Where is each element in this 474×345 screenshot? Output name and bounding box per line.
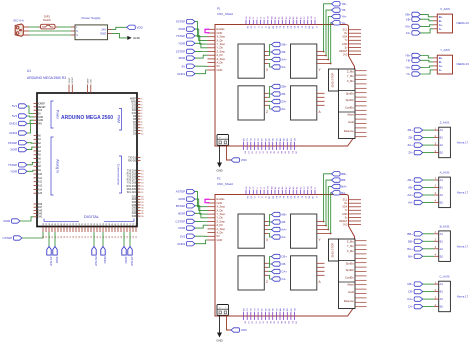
svg-text:D43: D43	[38, 214, 43, 216]
svg-text:XDIR: XDIR	[10, 148, 17, 152]
svg-text:GND: GND	[38, 120, 43, 122]
net flag CB- to C_AXIS	[408, 289, 434, 293]
svg-text:ZA-: ZA-	[408, 151, 413, 155]
svg-text:CA-: CA-	[408, 305, 413, 309]
svg-text:A1: A1	[440, 128, 444, 132]
P2 stepper driver Z	[238, 256, 268, 290]
net flag YDIR and wire to U1	[10, 169, 33, 173]
svg-text:ZB-: ZB-	[408, 136, 413, 140]
svg-text:CDIR: CDIR	[178, 226, 185, 230]
net flag XB- (P1 X driver)	[264, 50, 286, 56]
svg-text:Resume: Resume	[344, 129, 355, 133]
svg-text:B1: B1	[440, 136, 444, 140]
svg-text:TX3 D14: TX3 D14	[127, 170, 137, 172]
U1 DIGITAL label and bracket	[44, 214, 134, 221]
svg-text:CA+: CA+	[281, 270, 287, 274]
P2 A driver unconnected pins	[316, 263, 324, 275]
net flag ZB- (P1 Z driver)	[264, 92, 286, 98]
svg-text:TX0 D1: TX0 D1	[128, 157, 137, 159]
net flag AA- (P2 X driver)	[264, 234, 286, 240]
svg-text:A_Step: A_Step	[217, 227, 226, 231]
net flag YA- and wire from P1 Y driver	[316, 21, 346, 65]
P2 bottom pin header	[243, 307, 296, 324]
net flag ZA- to Z_AXIS	[408, 150, 434, 154]
svg-text:BA+: BA+	[407, 247, 413, 251]
svg-text:IOREF: IOREF	[69, 77, 71, 84]
net flag CDIR to P2	[178, 225, 207, 230]
net flag AA+ (P2 X driver)	[264, 227, 287, 231]
svg-text:5V: 5V	[38, 114, 41, 116]
connector J1 IEC-A-A power inlet	[14, 19, 30, 37]
svg-text:A1: A1	[440, 178, 444, 182]
svg-text:YA+: YA+	[405, 66, 411, 70]
svg-text:AA+: AA+	[281, 228, 287, 232]
svg-text:YSTEP: YSTEP	[8, 163, 18, 167]
P1 A driver unconnected pins	[316, 93, 324, 105]
svg-text:BSTEP: BSTEP	[176, 204, 186, 208]
svg-text:ZDIR: ZDIR	[55, 257, 59, 264]
svg-text:B1: B1	[440, 239, 444, 243]
net flag CDIR and wire to U1	[3, 217, 33, 223]
net flag YA+ and wire from P1 Y driver	[316, 14, 347, 60]
svg-text:D45: D45	[38, 210, 43, 212]
svg-text:Z_AXIS: Z_AXIS	[440, 121, 450, 125]
svg-text:BA-: BA-	[408, 254, 413, 258]
svg-text:XSTEP: XSTEP	[8, 141, 18, 145]
svg-text:SDA D20: SDA D20	[127, 188, 137, 191]
svg-text:BB+: BB+	[341, 172, 347, 176]
svg-text:YA-: YA-	[406, 72, 411, 76]
svg-text:DIGITAL: DIGITAL	[84, 214, 100, 219]
net flag ZSTEP to P1	[176, 49, 208, 53]
svg-text:D30: D30	[132, 208, 137, 210]
svg-text:B2: B2	[440, 305, 444, 309]
svg-text:SpnEn: SpnEn	[346, 91, 355, 95]
svg-text:Power: Power	[56, 110, 60, 120]
P1 END STOP header label	[329, 69, 339, 91]
svg-text:Z_Dir: Z_Dir	[217, 223, 223, 227]
svg-text:X_Step: X_Step	[217, 205, 226, 209]
net flag BDIR below U1	[101, 232, 107, 263]
svg-text:CSTEP: CSTEP	[176, 220, 186, 224]
svg-text:CB+: CB+	[407, 282, 413, 286]
svg-text:XSTEP: XSTEP	[176, 20, 186, 24]
svg-text:A_Step: A_Step	[217, 57, 226, 61]
svg-text:Communication: Communication	[117, 164, 121, 186]
svg-text:5V1: 5V1	[12, 104, 18, 108]
wire E: IEC to power supply	[29, 34, 71, 36]
svg-text:YDIR: YDIR	[178, 41, 185, 45]
net flag XSTEP and wire to U1	[8, 141, 34, 145]
svg-text:Nema 17: Nema 17	[457, 191, 469, 195]
svg-text:X_Mo: X_Mo	[347, 79, 355, 83]
svg-text:D49: D49	[38, 204, 43, 206]
svg-text:C_AXIS: C_AXIS	[440, 275, 450, 279]
svg-text:GND: GND	[91, 79, 93, 84]
svg-text:GND: GND	[131, 102, 136, 104]
P1 left pins	[208, 27, 226, 72]
svg-text:Hold: Hold	[348, 290, 354, 294]
svg-text:SCL: SCL	[343, 199, 348, 202]
svg-text:G: G	[76, 35, 78, 37]
net flag 5V2 and wire to U1	[12, 114, 33, 118]
svg-text:GND2: GND2	[9, 131, 17, 135]
ground symbol GND (power supply)	[127, 36, 140, 40]
P1 stepper driver X	[238, 44, 269, 78]
net flag BA- to B_AXIS	[408, 254, 434, 258]
P2 end-stop / control pin block	[339, 239, 367, 309]
svg-text:AB+: AB+	[281, 213, 287, 217]
svg-text:Y_Dir: Y_Dir	[217, 46, 224, 50]
net flag GND1 and wire to U1	[9, 120, 33, 126]
svg-text:XA+: XA+	[281, 58, 287, 62]
net flag 5V to P1	[182, 64, 208, 68]
svg-text:P1: P1	[217, 7, 221, 11]
svg-text:Nema 17: Nema 17	[457, 295, 469, 299]
svg-text:BDIR: BDIR	[178, 211, 185, 215]
svg-text:RESET: RESET	[72, 76, 74, 83]
svg-text:D41: D41	[38, 217, 43, 219]
svg-text:ZB-: ZB-	[281, 92, 286, 96]
U1 PWM bracket	[117, 109, 122, 131]
svg-text:X_Step: X_Step	[217, 35, 226, 39]
svg-text:Nema 17: Nema 17	[457, 141, 469, 145]
svg-text:GND: GND	[217, 68, 223, 72]
svg-text:D32: D32	[132, 210, 137, 212]
svg-text:GND1: GND1	[9, 122, 17, 126]
svg-text:AB-: AB-	[408, 186, 413, 190]
net flag ZA+ (P1 Z driver)	[264, 99, 287, 103]
net flag ASTEP to P2	[176, 189, 208, 206]
U1 Analog In bracket	[51, 137, 60, 195]
svg-text:ZSTEP: ZSTEP	[176, 50, 185, 54]
svg-text:AA+: AA+	[407, 193, 413, 197]
svg-text:Z_Dir: Z_Dir	[217, 53, 223, 57]
U1 bottom pins DIGITAL	[43, 222, 138, 238]
U1 right pins lower group	[132, 196, 145, 218]
net flag ZB- to Z_AXIS	[408, 135, 434, 139]
svg-text:A-: A-	[439, 27, 442, 31]
svg-text:YB+: YB+	[405, 54, 411, 58]
U1 Communication bracket	[117, 156, 122, 193]
svg-text:GND: GND	[216, 169, 222, 173]
svg-text:D28: D28	[132, 205, 137, 207]
svg-text:NEMA 23: NEMA 23	[457, 62, 470, 66]
net flag GND1 to P1	[177, 70, 207, 76]
net flag YA- to Y_AXIS	[406, 70, 433, 76]
svg-text:IEC-A-A: IEC-A-A	[14, 19, 24, 23]
net flag GND2 and wire to U1	[9, 124, 33, 136]
svg-text:CA+: CA+	[407, 297, 413, 301]
net flag YA+ to Y_AXIS	[405, 65, 433, 69]
net flag XDIR and wire to U1	[10, 147, 33, 152]
net flag VDD (P2)	[231, 328, 247, 332]
svg-text:BB-: BB-	[408, 239, 413, 243]
svg-text:GND: GND	[133, 36, 141, 40]
net flag BB- to B_AXIS	[408, 239, 434, 243]
svg-text:RX1 D19: RX1 D19	[127, 186, 137, 188]
net flag YB- to Y_AXIS	[406, 58, 433, 62]
svg-text:ZB+: ZB+	[408, 128, 414, 132]
svg-text:A2: A2	[440, 193, 444, 197]
U1 right pins Communication group	[127, 157, 145, 194]
P1 stepper driver Y	[291, 44, 322, 78]
svg-text:GND: GND	[216, 339, 222, 343]
svg-text:XA-: XA-	[406, 31, 411, 35]
svg-text:VDD: VDD	[137, 25, 144, 29]
svg-text:XB-: XB-	[281, 50, 286, 54]
net flag AB+ (P2 X driver)	[264, 212, 287, 221]
svg-text:END STOP: END STOP	[331, 73, 335, 88]
svg-text:BDIR: BDIR	[103, 257, 107, 264]
svg-text:Abort: Abort	[347, 282, 354, 286]
net flag ZB+ to Z_AXIS	[408, 128, 434, 132]
svg-text:SpnDir: SpnDir	[346, 268, 354, 272]
svg-text:BA-: BA-	[341, 191, 346, 195]
svg-text:5V: 5V	[217, 234, 220, 238]
svg-text:CB-: CB-	[408, 290, 413, 294]
svg-text:YSTEP: YSTEP	[176, 34, 186, 38]
svg-text:A2: A2	[440, 143, 444, 147]
svg-text:Analog In: Analog In	[56, 159, 60, 173]
svg-text:Resume: Resume	[344, 299, 355, 303]
wire 24V to VDD	[112, 27, 127, 29]
svg-text:YB-: YB-	[341, 8, 346, 12]
svg-text:A15: A15	[38, 192, 43, 195]
svg-text:CDIR: CDIR	[3, 219, 10, 223]
svg-text:XA+: XA+	[405, 25, 411, 29]
svg-text:CB+: CB+	[281, 255, 287, 259]
P2 stepper driver A	[291, 256, 322, 290]
ground symbol GND (P2)	[216, 333, 222, 343]
switch DIP1	[39, 15, 58, 29]
svg-text:A10: A10	[38, 173, 43, 176]
net flag YB- and wire from P1 Y driver	[316, 8, 346, 57]
svg-text:BB-: BB-	[341, 178, 346, 182]
net flag CSTEP to P2	[176, 219, 208, 223]
svg-text:YB-: YB-	[406, 58, 411, 62]
svg-text:D10: D10	[132, 113, 137, 115]
svg-text:A1: A1	[440, 282, 444, 286]
svg-text:A1: A1	[440, 232, 444, 236]
P2 stepper driver X	[238, 214, 269, 248]
net flag ZDIR to P1	[178, 55, 207, 60]
net flag CB- (P2 Z driver)	[264, 262, 286, 268]
net flag ZA- (P1 Z driver)	[264, 105, 286, 111]
svg-text:YDIR: YDIR	[10, 169, 17, 173]
svg-text:X_Dir: X_Dir	[217, 38, 224, 42]
ground symbol GND (P1)	[216, 163, 222, 173]
svg-text:5V2: 5V2	[12, 114, 18, 118]
U1 left pins Power group	[34, 103, 47, 125]
svg-text:A2: A2	[440, 247, 444, 251]
svg-text:VDD: VDD	[241, 328, 247, 332]
svg-text:D26: D26	[132, 202, 137, 204]
svg-text:ASTEP: ASTEP	[176, 190, 186, 194]
svg-text:Z_Mo: Z_Mo	[347, 239, 354, 243]
svg-text:ADIR: ADIR	[178, 197, 185, 201]
net flag XA+ to X_AXIS	[405, 24, 433, 28]
svg-text:Z: Z	[266, 110, 268, 114]
U1 left pins Analog In group	[34, 134, 43, 195]
P1 top pin header	[246, 15, 317, 29]
svg-text:Z: Z	[266, 280, 268, 284]
svg-text:A14: A14	[38, 188, 43, 191]
svg-text:CNC_Shield: CNC_Shield	[217, 12, 233, 16]
svg-text:RESET: RESET	[38, 107, 46, 109]
svg-text:YB+: YB+	[341, 2, 347, 6]
svg-text:VDD: VDD	[241, 158, 247, 162]
svg-text:X_Dir: X_Dir	[217, 208, 224, 212]
net flag BDIR to P2	[178, 211, 207, 218]
P2 left pins	[208, 197, 226, 242]
P2 wire terminal to GND	[219, 315, 221, 332]
P1 wire terminal to VDD	[227, 145, 232, 160]
net flag XA+ (P1 X driver)	[264, 57, 287, 61]
svg-text:B2: B2	[440, 254, 444, 258]
wire GND from power supply	[112, 34, 128, 38]
net flag YDIR to P1	[178, 41, 207, 48]
power supply PS1	[71, 16, 112, 40]
svg-text:P2: P2	[217, 177, 221, 181]
svg-text:GND2: GND2	[177, 242, 185, 246]
svg-text:VIN: VIN	[38, 124, 42, 126]
svg-text:ASTEP: ASTEP	[130, 257, 134, 267]
svg-text:Nema 17: Nema 17	[457, 244, 469, 248]
net flag AB- to A_AXIS	[408, 185, 434, 189]
net flag YB+ to Y_AXIS	[405, 53, 433, 58]
svg-text:Enable: Enable	[217, 27, 226, 31]
svg-text:D36: D36	[132, 216, 137, 218]
svg-text:D13: D13	[132, 104, 137, 106]
svg-text:CB-: CB-	[281, 262, 286, 266]
svg-text:B1: B1	[440, 186, 444, 190]
net flag YB+ and wire from P1 Y driver	[316, 2, 347, 53]
svg-text:Y_Mo: Y_Mo	[347, 244, 355, 248]
P1 Enable net stub (magenta)	[205, 29, 210, 32]
U1 Power bracket	[51, 101, 60, 128]
svg-text:RESET: RESET	[339, 220, 348, 223]
svg-text:A12: A12	[38, 181, 43, 184]
svg-text:PWM: PWM	[117, 115, 121, 123]
U1 right pins PWM group	[130, 98, 145, 136]
svg-text:SpnEn: SpnEn	[346, 261, 355, 265]
svg-text:NEMA 23: NEMA 23	[457, 21, 470, 25]
net flag BSTEP below U1	[92, 232, 98, 266]
svg-text:CoolEn: CoolEn	[345, 105, 354, 109]
svg-text:Y_Step: Y_Step	[217, 212, 226, 216]
svg-text:Switch: Switch	[43, 18, 52, 22]
net flag ZA+ to Z_AXIS	[408, 143, 434, 147]
svg-text:YA+: YA+	[341, 15, 347, 19]
P1 end-stop / control pin block	[339, 69, 367, 139]
P2 wire terminal to VDD	[227, 315, 232, 330]
svg-text:B1: B1	[440, 290, 444, 294]
P2 board outline	[215, 195, 355, 317]
svg-text:CoolEn: CoolEn	[345, 275, 354, 279]
net flag BB+ to B_AXIS	[407, 232, 434, 236]
net flag ADIR to P2	[178, 197, 207, 211]
svg-text:A_Dir: A_Dir	[217, 231, 224, 235]
svg-text:3V3: 3V3	[38, 110, 43, 112]
P2 right pins serial group	[339, 199, 361, 227]
svg-text:CNC_Shield: CNC_Shield	[217, 182, 233, 186]
U1 body	[37, 93, 137, 227]
net flag YSTEP and wire to U1	[8, 162, 34, 167]
svg-text:AB+: AB+	[407, 178, 413, 182]
svg-text:Z_Step: Z_Step	[217, 219, 226, 223]
net flag CA+ (P2 Z driver)	[264, 269, 287, 273]
P1 stepper driver Z	[238, 86, 268, 120]
svg-text:5V2: 5V2	[180, 234, 186, 238]
svg-text:CSTEP: CSTEP	[3, 236, 13, 240]
net flag XA- (P1 X driver)	[264, 64, 286, 70]
svg-text:A_AXIS: A_AXIS	[440, 171, 450, 175]
svg-text:ZA+: ZA+	[408, 143, 414, 147]
svg-text:BSTEP: BSTEP	[94, 257, 98, 267]
net flag BB- and wire from P2 Y driver	[316, 178, 346, 227]
svg-text:Enable: Enable	[217, 197, 226, 201]
svg-text:GND: GND	[342, 43, 348, 46]
P1 board outline	[215, 25, 355, 147]
svg-text:B2: B2	[440, 201, 444, 205]
svg-text:D34: D34	[132, 213, 137, 215]
svg-text:GND: GND	[217, 31, 223, 35]
svg-text:RX3 D15: RX3 D15	[127, 173, 137, 175]
net flag XB- to X_AXIS	[406, 17, 433, 21]
svg-text:BA+: BA+	[341, 185, 347, 189]
P1 bottom pin header	[243, 137, 296, 154]
svg-text:GND: GND	[217, 238, 223, 242]
svg-text:RX2 D17: RX2 D17	[127, 180, 137, 182]
net flag CSTEP and wire to U1 bottom pin	[3, 232, 43, 240]
svg-text:XB+: XB+	[281, 43, 287, 47]
svg-text:AREF: AREF	[86, 77, 89, 83]
net flag CB+ to C_AXIS	[407, 282, 434, 286]
svg-text:Y_Mo: Y_Mo	[347, 74, 355, 78]
U1 top pins	[69, 76, 93, 93]
svg-text:TX2 D16: TX2 D16	[127, 177, 137, 179]
wire N: IEC to power supply	[29, 30, 71, 32]
svg-text:XB+: XB+	[405, 13, 411, 17]
P2 END STOP header label	[329, 239, 339, 261]
net flag YSTEP to P1	[176, 34, 208, 45]
P2 power terminal block	[217, 305, 229, 316]
svg-text:D12: D12	[132, 107, 137, 109]
svg-text:Y_Dir: Y_Dir	[217, 216, 224, 220]
P1 wire terminal to GND	[219, 145, 221, 162]
svg-text:ARDUINO MEGA 2560: ARDUINO MEGA 2560	[61, 115, 113, 121]
U1 left pins lower group	[34, 204, 43, 219]
P1 power terminal block	[217, 135, 229, 146]
svg-text:A13: A13	[38, 185, 43, 188]
svg-text:5V: 5V	[182, 64, 186, 68]
P2 top pin header	[246, 185, 317, 199]
P2 Enable net stub (magenta)	[205, 199, 210, 202]
net flag XB+ to X_AXIS	[405, 12, 433, 17]
net flag CA- (P2 Z driver)	[264, 275, 286, 281]
svg-text:XB-: XB-	[406, 17, 411, 21]
net flag GND2 to P2	[177, 240, 207, 246]
svg-text:Hold: Hold	[348, 120, 354, 124]
svg-text:AA-: AA-	[281, 235, 286, 239]
net flag 5V2 to P2	[180, 234, 207, 238]
svg-text:RX0 D0: RX0 D0	[128, 161, 137, 163]
svg-text:ADIR: ADIR	[124, 257, 128, 264]
svg-text:AB-: AB-	[281, 220, 286, 224]
svg-text:A-: A-	[439, 68, 442, 72]
net flag XA- to X_AXIS	[406, 29, 433, 35]
